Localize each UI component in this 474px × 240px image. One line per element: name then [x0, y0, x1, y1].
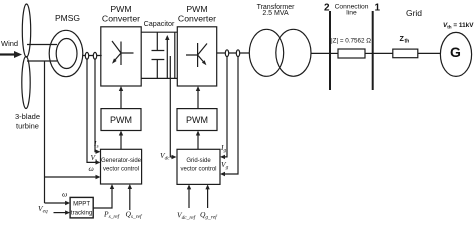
svg-text:ω: ω [89, 164, 94, 173]
svg-text:Capacitor: Capacitor [144, 19, 175, 28]
svg-text:Generator-side: Generator-side [101, 158, 142, 164]
svg-text:ω: ω [62, 190, 67, 199]
svg-text:line: line [346, 10, 357, 17]
svg-text:PWM: PWM [186, 4, 207, 14]
svg-text:2.5 MVA: 2.5 MVA [262, 10, 289, 17]
svg-text:tracking: tracking [71, 210, 92, 217]
svg-text:|Z| = 0.7562 Ω: |Z| = 0.7562 Ω [331, 38, 371, 45]
svg-text:PWM: PWM [186, 115, 208, 125]
svg-text:Wind: Wind [1, 39, 18, 48]
svg-text:1: 1 [375, 3, 381, 14]
svg-text:th: th [405, 39, 410, 45]
svg-text:G: G [450, 44, 461, 60]
svg-text:Converter: Converter [102, 14, 140, 24]
svg-text:Grid-side: Grid-side [186, 158, 211, 164]
svg-text:2: 2 [324, 3, 330, 14]
svg-text:vector control: vector control [103, 166, 139, 172]
svg-text:Converter: Converter [178, 14, 216, 24]
svg-text:vector control: vector control [180, 166, 216, 172]
svg-text:Grid: Grid [406, 8, 422, 18]
svg-text:PWM: PWM [110, 4, 131, 14]
svg-text:turbine: turbine [16, 122, 39, 131]
svg-text:PWM: PWM [110, 115, 132, 125]
svg-text:PMSG: PMSG [55, 13, 80, 23]
svg-text:MPPT: MPPT [73, 201, 90, 208]
svg-text:3-blade: 3-blade [15, 112, 40, 121]
